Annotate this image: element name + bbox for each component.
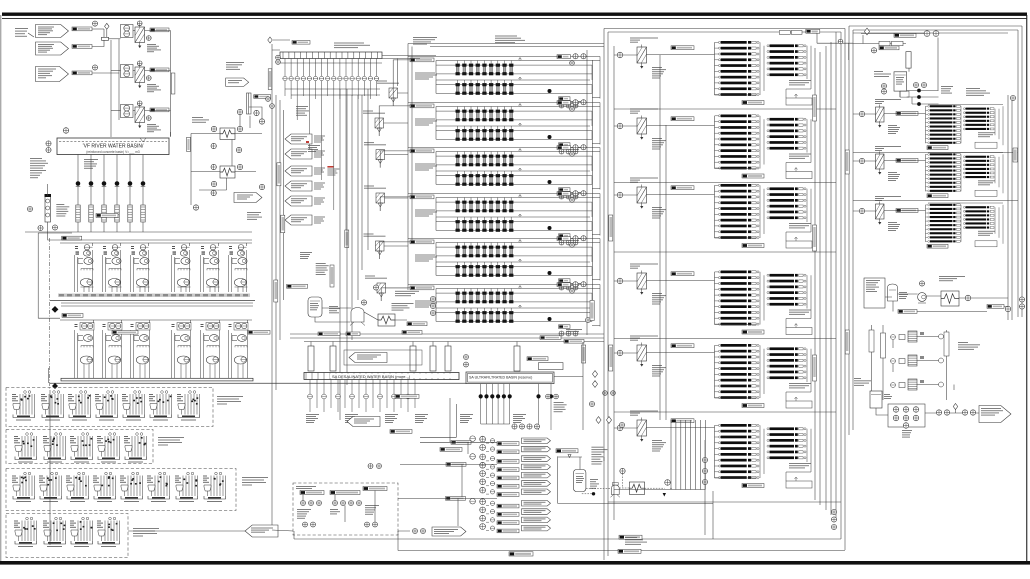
instrument UF4 d2 (566, 240, 571, 245)
line label UF3 top (557, 146, 571, 150)
text RO rack R3 RACK data (978, 231, 995, 236)
module UF2.2 left riser (435, 126, 437, 139)
cartridge filter CP1E (637, 343, 647, 367)
pump CIP1 (918, 293, 927, 303)
RO rack R1 frame (928, 103, 1003, 105)
module UF1.1 right riser (591, 65, 593, 74)
line label CWD-30 (402, 331, 422, 335)
module UF4 drain dot (548, 226, 552, 230)
wire module drain bus 2 (592, 60, 594, 300)
manifold box above basin4 (539, 363, 564, 370)
module UF3.1 row wire mid (436, 155, 592, 157)
instrument backwash 3 (527, 424, 532, 429)
line label CWD-302 (390, 430, 412, 434)
stack banner 10 (522, 517, 551, 523)
wire pump FPU1.2 drop (120, 243, 122, 246)
wire GF5 to module (380, 242, 410, 259)
dosing unit DS3.4 (93, 472, 116, 502)
instrument LI on basin (63, 128, 69, 134)
module UF2.1 right riser (591, 111, 593, 120)
module UF4.1 tick (519, 195, 522, 198)
line label PRW-300-PRC (318, 332, 340, 336)
module UF1.1 row wire bottom (436, 73, 592, 75)
numbered valve 2 (592, 371, 597, 378)
module UF4.1 right riser (591, 202, 593, 211)
wire strainer 1 outlet (145, 30, 171, 32)
text PULSE data (329, 306, 340, 313)
instrument top right b (933, 31, 939, 37)
wire module inlet bus 1 (407, 44, 409, 291)
wire CP1B inlet (614, 125, 637, 127)
line label RO rack M1 product (742, 101, 764, 105)
middle section top border (604, 29, 845, 33)
instrument PI skid (361, 300, 366, 305)
RO rack M4 bottom box (786, 328, 812, 335)
middle section right borders (836, 29, 845, 551)
wire left bus 4 (283, 110, 285, 300)
module UF1.2 right riser (591, 85, 593, 94)
module UF2 top header wire (408, 102, 600, 104)
stack banner 5 (522, 472, 551, 478)
wire module feeder 4 (361, 95, 363, 270)
wire stack riser 1 (449, 398, 451, 442)
wire module inlet bus 2 (411, 47, 413, 241)
wire rack M1 separator (614, 108, 836, 110)
wire into basin (170, 130, 172, 136)
standpipe at 445 (445, 346, 451, 371)
frame top thin line (2, 17, 1027, 20)
reticulate filter GF2 (375, 118, 384, 136)
wire basin2 to modules (382, 56, 436, 87)
text CP1F data (652, 440, 666, 452)
wire hdr2 (118, 73, 120, 120)
wire top pills drop (812, 33, 849, 60)
line label UF2 inlet (410, 104, 434, 108)
wire CP1A outlet (647, 54, 715, 56)
EDI module row 3 (891, 379, 944, 390)
instrument VE a (881, 83, 886, 88)
basin2 outlet 11 (344, 59, 348, 231)
instrument PI-29 (211, 181, 216, 186)
instrument skid b (430, 303, 435, 308)
wire midbottom bus 3 (304, 341, 604, 343)
standpipe at 330 (330, 346, 336, 371)
module UF2 right drop (592, 103, 600, 145)
vertical pill feeder b (274, 280, 278, 302)
wire GF2 to module (379, 106, 410, 136)
wire dosing header (49, 390, 51, 545)
strainer F3 data (147, 124, 161, 132)
text EH ELECTRIC HEATER (392, 303, 414, 311)
valve key basin2 (268, 37, 273, 43)
pump PUT3 upper (913, 407, 919, 413)
stack feed pill 2 (446, 463, 466, 467)
RO rack M1 right membrane bank (767, 44, 806, 76)
pump FPU2.1 (75, 323, 95, 379)
CIP MIX box (864, 278, 885, 308)
module UF5.1 left riser (435, 243, 437, 256)
module UF2.2 tick (519, 123, 522, 126)
line label UF4 top (557, 192, 571, 196)
basin3 outlet drops (308, 380, 415, 413)
wire pump FPU1.6 drop (246, 243, 248, 246)
module UF6 right drop (592, 285, 600, 327)
dosing pump vessel (350, 308, 365, 326)
instrument PI UF5b (581, 236, 586, 241)
instrument backwash 1 (512, 424, 517, 429)
RO rack R3 left feed riser (925, 205, 927, 242)
wire left bus 2 (275, 95, 277, 390)
wire CP1A inlet (614, 54, 637, 56)
module UF1.1 tick (519, 58, 522, 61)
cartridge filter CP1B (637, 116, 647, 140)
right section far right verticals (1008, 26, 1022, 320)
basin outlet line 3 (102, 155, 107, 233)
strainer inlet valve (102, 37, 109, 40)
manifold PUT frame (888, 404, 925, 427)
line label GSN (540, 336, 561, 340)
text PW 1-4.1 (365, 505, 379, 515)
RO rack R2 risers (961, 154, 1003, 193)
module UF6 inter-row link (436, 302, 592, 308)
RO rack M2 left membrane bank (715, 115, 760, 170)
instrument far right b1 (1019, 297, 1024, 302)
instrument FI UF3 (570, 152, 575, 157)
stack banner 7 (522, 489, 551, 495)
reticulate filter GF5 (376, 241, 385, 259)
label PW box 1 (300, 491, 324, 495)
text GF5 RETICULATE FILTER (364, 234, 386, 237)
module UF3 sub label (566, 192, 582, 195)
dosing unit DS2.5 (124, 433, 147, 463)
text RO rack M3 REVERSE OSMOSIS (789, 223, 811, 228)
text PSW at 306 (306, 414, 319, 423)
line label PWD-300-PW (395, 395, 419, 399)
wire strainer 2 outlet (145, 70, 171, 72)
basin2 outlet 4 (301, 59, 305, 97)
wire stack group feeds (398, 437, 497, 498)
stack row 5 (480, 471, 495, 478)
module UF5.1 tick (519, 240, 522, 243)
module UF4.1 row wire bottom (436, 210, 592, 212)
stack banner 1 (522, 438, 551, 444)
instrument FI-105 (92, 65, 97, 70)
strainer pump box S3 (121, 105, 134, 118)
text PUL.5-4.4 (297, 509, 311, 519)
module UF3.2 left riser (435, 171, 437, 184)
module UF5.1 cells (456, 243, 514, 258)
instrument CF6 aux (619, 422, 624, 427)
dosing row 2 caption (158, 437, 184, 446)
callout PRE TREATMENT (349, 353, 387, 363)
line label CP1E outlet (671, 344, 694, 348)
wire pump FPU2.3 drop (149, 320, 151, 323)
module UF3.1 right riser (591, 156, 593, 165)
red tag 2 (327, 166, 333, 168)
module UF6.1 cells (456, 289, 514, 304)
wire rack return bus (815, 42, 831, 515)
text CP1A data (652, 67, 666, 79)
text PW.1 caption (296, 486, 316, 489)
instrument UF5 d2 (566, 285, 571, 290)
heat exchanger HE1.1 (220, 128, 235, 140)
RO rack M4 left feed riser (714, 272, 716, 325)
basin FLOCCED WATER BASIN (280, 52, 382, 59)
basin2 outlet 16 (374, 59, 378, 97)
stack feed pill 1 (451, 441, 471, 445)
right section left double border (849, 26, 853, 435)
flow element AB1 (45, 184, 52, 222)
module UF5.2 row wire mid (436, 266, 592, 268)
line label UF6 top (557, 283, 571, 287)
text CP2B data (888, 172, 900, 181)
pump PUT4 (903, 423, 909, 429)
vertical pill bus top (268, 69, 272, 90)
wire rack M2 separator (614, 182, 836, 184)
RO rack M3 collect frame (715, 232, 812, 241)
instrument PW pump 3a (317, 501, 322, 506)
module UF5 sub label (566, 283, 582, 286)
instrument PDI CP2B (859, 158, 864, 163)
module UF3 right drop (592, 148, 600, 190)
vertical pill module6 right (590, 301, 594, 321)
wire strainer 3 outlet (145, 110, 171, 112)
wire CP1E inlet (614, 352, 637, 354)
dosing row 1 dashed enclosure (6, 388, 213, 427)
pump FPU1.6 (229, 245, 248, 293)
PULSA dashed enclosure (293, 483, 398, 535)
wire module feeder 1 (346, 89, 348, 385)
stack feed pill 3 (446, 497, 466, 501)
CIP tank T2 (574, 470, 586, 492)
line label SN-312-PC (150, 68, 169, 72)
instrument pair A (546, 394, 551, 399)
instrument far right b2 (1019, 304, 1024, 309)
text FQI.5-3/6 (327, 169, 339, 176)
wire module feeder 3 (357, 95, 359, 300)
wire right top bus2 (853, 43, 906, 45)
module UF2.1 row wire mid (436, 110, 592, 112)
wire mid box feed bus (613, 46, 615, 520)
RO rack M6 tick (795, 477, 798, 481)
numbered valve 4 (596, 417, 601, 424)
stack banner 6 (522, 481, 551, 487)
wire pump FPU1.1 drop (92, 243, 94, 246)
instrument PI UF4b (581, 191, 586, 196)
wire midbottom bus 1 (290, 333, 604, 335)
instrument PDI-3 (146, 116, 151, 121)
wire VE links (861, 34, 939, 105)
line label RO rack M6 product (742, 484, 764, 488)
RO rack R1 bottom box (975, 142, 997, 148)
stack line label 7 (497, 493, 519, 497)
standpipe (247, 93, 252, 114)
CIP tank T1 (888, 284, 898, 301)
svg-text:'VF RIVER WATER BASIN/: 'VF RIVER WATER BASIN/ (83, 144, 144, 150)
module UF1.2 left riser (435, 80, 437, 93)
line label RO rack M4 product (742, 330, 764, 334)
text FQI.5-2/6 (308, 145, 320, 152)
text RECYCLED WATER FOR BACKING (226, 62, 244, 70)
module UF5.2 row wire top (436, 261, 590, 263)
RO rack M6 inter-bank risers (760, 425, 811, 478)
instrument PDI CP1E (617, 350, 623, 356)
module UF4.2 right riser (591, 222, 593, 231)
module UF3.2 row wire mid (436, 175, 592, 177)
wire GF1 to module (393, 60, 410, 106)
instrument on strainer 1 (137, 21, 142, 26)
vertical pill mid right a (813, 95, 817, 121)
dosing unit DS1.6 (149, 391, 172, 421)
wire PUT out (925, 410, 979, 414)
module UF6.1 right riser (591, 293, 593, 302)
instrument UF6 d2 (566, 331, 571, 336)
module UF1.1 cells (456, 61, 514, 76)
basin outlet line 4 (115, 155, 120, 233)
instrument above pulsa a (368, 464, 373, 469)
RO rack R1 left feed riser (925, 106, 927, 143)
text UFC-6 ULTRAFILTRATION (495, 36, 525, 44)
wire pump FPU2.4 drop (190, 320, 192, 323)
module UF4 right drop (592, 194, 600, 236)
instrument PI-31 (193, 205, 198, 210)
text GT1-1/2 SAND REMOVE (247, 212, 262, 220)
line label GSN-302-PRC (619, 535, 642, 539)
instrument FI UF2 (570, 107, 575, 112)
label PW box 2 (330, 491, 360, 495)
wire pump FPU1.5 drop (218, 243, 220, 246)
module UF3 inter-row link (436, 165, 592, 171)
dosing unit DS3.2 (39, 472, 62, 502)
text module 4 caption (415, 210, 437, 217)
instrument TI-21 (254, 110, 259, 115)
RO rack M4 collect frame (715, 319, 812, 328)
feed banner RAW WATER No1 (36, 25, 69, 38)
dosing unit DS2.1 (14, 433, 37, 463)
basin2 outlet 7 (319, 59, 323, 181)
RO rack R3 frame (928, 202, 1003, 204)
wire module top bus A (408, 43, 604, 45)
self-cleaning strainer F2 (135, 65, 145, 89)
pump PUT1 lower (893, 415, 899, 421)
instrument pair B (554, 394, 559, 399)
vertical pill far right (1013, 148, 1018, 162)
line label UF6 drain (559, 325, 571, 329)
text CIP MIX data (866, 280, 880, 292)
module UF5.1 right riser (591, 247, 593, 256)
module UF4.2 row wire bottom (436, 229, 592, 231)
module UF3.1 cells (456, 152, 514, 167)
callout TREATED WATER OUT (245, 525, 278, 537)
chemical feed banner 6 (285, 215, 312, 225)
text PUMP2 data (590, 479, 599, 489)
module UF3.1 row wire bottom (436, 164, 592, 166)
RO rack R2 left membrane bank (926, 153, 961, 192)
module UF6.2 tick (519, 305, 522, 308)
pump FPU1.5 (201, 245, 220, 293)
line label CP2C outlet (896, 209, 918, 213)
vertical pill mid right b (813, 225, 817, 251)
line label CP1B outlet (671, 117, 694, 121)
valve V-101 (105, 23, 110, 29)
RO rack M1 left feed riser (714, 43, 716, 96)
line label CIP supply (898, 310, 917, 314)
instrument PI-25 (211, 143, 216, 148)
RO rack M4 right membrane bank (767, 274, 806, 306)
instrument module6 drain (586, 318, 591, 323)
wire bottom risers (294, 491, 713, 551)
valve top right (864, 28, 869, 35)
EDI standpipe b (881, 333, 886, 358)
wire VT manifold (876, 408, 888, 415)
wire basin4 drops collector (481, 423, 510, 425)
wire CP1C outlet (647, 194, 715, 196)
wire strainer 3 feed (111, 110, 121, 112)
module UF2.2 cells (456, 126, 514, 141)
text GF1 RETICULATE FILTER (377, 81, 399, 84)
pump FPU1.3 (131, 245, 150, 293)
chemical feed banner 4 (285, 181, 312, 191)
stack row 3 (470, 454, 495, 461)
chemical feed banner 2 (285, 149, 312, 159)
module UF4.2 left riser (435, 217, 437, 230)
RO rack M3 bottom box (786, 241, 812, 248)
instrument TI-32 (259, 184, 264, 189)
text EHU ELECTRIC HEATER (939, 276, 965, 281)
instrument TI CIP2 out (665, 480, 671, 486)
wire pump bank2 header (60, 319, 252, 321)
text KOAGULANT ANTISCALANT (413, 37, 437, 45)
basin SA ULTRAFILTRATED BASIN (466, 372, 554, 384)
EDI standpipe a (869, 330, 874, 352)
valve out (953, 404, 958, 410)
text mid (330, 509, 340, 514)
instrument skid a (430, 296, 435, 301)
wire filter collector v1 (659, 55, 661, 420)
basin4 drain drops (536, 384, 553, 430)
wire tank riser (568, 455, 580, 470)
instrument LI basin2 b (276, 60, 281, 65)
stack line label 8 (497, 504, 519, 508)
tank VT (870, 391, 882, 408)
instrument UF3 d1 (559, 194, 564, 199)
wire basin2 underline (280, 62, 382, 64)
RO rack R1 left membrane bank (926, 105, 961, 144)
stack banner 3 (522, 456, 551, 462)
dosing unit DS4.4 (97, 517, 120, 547)
module UF2.1 cells (456, 107, 514, 122)
dosing unit DS1.3 (68, 391, 91, 421)
small box pair (879, 41, 903, 45)
instrument FI UF1 (570, 61, 575, 66)
text GF2 RETICULATE FILTER (363, 111, 385, 114)
wire CIP circuit (885, 294, 1008, 312)
instrument VE c (913, 82, 918, 87)
wire feeder to GF column (367, 89, 369, 250)
line label CP2B outlet (896, 159, 918, 163)
line label SN-313-PC (150, 108, 169, 112)
module UF3.1 row wire top (436, 151, 600, 153)
wire skid loop (315, 308, 407, 322)
module UF3 drain dot (548, 180, 552, 184)
instrument TI EHU (965, 295, 971, 301)
dosing unit DS2.2 (43, 433, 66, 463)
wire module feeder 2 (351, 95, 353, 340)
line label UF3 drain (559, 188, 571, 192)
CP tank (308, 297, 322, 317)
pump bank1 label strip (58, 294, 250, 297)
RO rack M6 collect frame (715, 472, 812, 481)
